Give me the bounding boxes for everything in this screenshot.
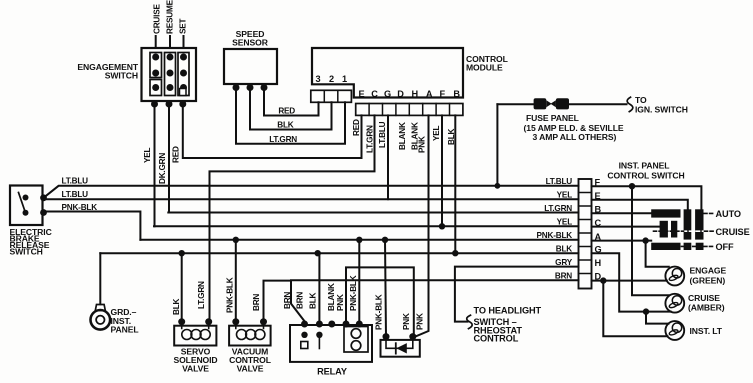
node on row F right xyxy=(629,183,635,189)
svg-text:RED: RED xyxy=(278,107,295,116)
svg-text:YEL: YEL xyxy=(557,218,573,227)
svg-text:BRN: BRN xyxy=(252,294,261,311)
wire LT.GRN: speed sensor pin1 to module connector 1 xyxy=(236,89,345,144)
svg-text:(AMBER): (AMBER) xyxy=(688,303,725,313)
svg-text:TO: TO xyxy=(635,95,647,105)
svg-text:D: D xyxy=(595,272,602,282)
wire row F right: connector to switch and lamp branch xyxy=(592,186,702,209)
svg-text:A: A xyxy=(595,232,602,242)
wire: row F branch down to cruise lamp xyxy=(632,186,669,295)
node: YEL joins row C xyxy=(439,223,445,229)
svg-text:IGN. SWITCH: IGN. SWITCH xyxy=(635,105,688,115)
indicator lamp: INST LT xyxy=(665,321,684,340)
wire BLK: speed sensor pin2 to module connector 2 xyxy=(250,89,332,130)
svg-text:G: G xyxy=(384,89,391,99)
svg-text:F: F xyxy=(439,89,445,99)
svg-text:F: F xyxy=(595,177,601,187)
node: BLK joins row G xyxy=(452,250,458,256)
svg-text:LT.BLU: LT.BLU xyxy=(62,190,89,199)
svg-text:PNK: PNK xyxy=(336,294,345,311)
svg-text:PNK-BLK: PNK-BLK xyxy=(349,275,358,311)
wire LT.GRN: module pin C to servo solenoid valve xyxy=(210,115,375,321)
svg-text:BLK: BLK xyxy=(556,245,573,254)
svg-text:G: G xyxy=(595,245,602,255)
svg-text:RED: RED xyxy=(352,119,361,136)
svg-text:2: 2 xyxy=(329,74,334,84)
svg-text:PNK-BLK: PNK-BLK xyxy=(62,203,98,212)
wire: G branch to inst lamp top xyxy=(646,312,669,324)
svg-text:LT.BLU: LT.BLU xyxy=(546,177,573,186)
vacuum control valve xyxy=(229,240,271,346)
svg-text:YEL: YEL xyxy=(557,191,573,200)
node: diode PNK-BLK tap on row A xyxy=(382,237,388,243)
wire row B to connector B xyxy=(168,212,578,214)
wire PNK: module pin A down to diode xyxy=(414,115,429,337)
svg-text:ENGAGE: ENGAGE xyxy=(690,266,727,276)
svg-text:LT.GRN: LT.GRN xyxy=(544,204,572,213)
svg-text:BLANK: BLANK xyxy=(327,283,336,311)
node on row G lamp branch xyxy=(643,308,649,314)
relay K1 xyxy=(290,321,372,362)
svg-text:BLK: BLK xyxy=(309,292,318,309)
node: relay PNK-BLK tap on row A xyxy=(356,237,362,243)
wire row D right: connector to engage lamp bottom xyxy=(592,280,667,282)
svg-text:BRN: BRN xyxy=(283,292,292,309)
connector break to headlight switch xyxy=(467,315,472,328)
svg-text:AUTO: AUTO xyxy=(716,209,741,219)
wire PNK-BLK row A to connector A xyxy=(140,239,578,241)
wire row B right: connector to auto bar xyxy=(592,212,652,214)
svg-text:BRN: BRN xyxy=(555,271,572,280)
wire row A right: connector to off bar with lamp branch xyxy=(592,240,652,242)
svg-text:CONTROL: CONTROL xyxy=(474,334,519,344)
svg-text:(GREEN): (GREEN) xyxy=(690,275,726,285)
svg-text:B: B xyxy=(453,89,460,99)
electric brake release switch xyxy=(10,186,47,226)
svg-text:RED: RED xyxy=(172,146,181,163)
svg-text:BRN: BRN xyxy=(296,292,305,309)
svg-text:E: E xyxy=(595,191,601,201)
wire: row D branch down to inst lamp bottom xyxy=(603,281,667,337)
svg-text:PNK-BLK: PNK-BLK xyxy=(375,294,384,330)
svg-text:MODULE: MODULE xyxy=(466,63,503,73)
control module U1 xyxy=(311,48,463,115)
svg-text:CRUISE: CRUISE xyxy=(688,293,720,303)
ground ring GRD-INST PANEL xyxy=(91,253,111,329)
diode CR1 xyxy=(381,333,420,357)
svg-text:A: A xyxy=(426,89,433,99)
node on row A right xyxy=(642,237,648,243)
svg-text:E: E xyxy=(358,89,364,99)
wire DK.GRN: engagement switch to row B xyxy=(168,104,170,213)
svg-text:SENSOR: SENSOR xyxy=(232,38,269,48)
svg-text:BLANK: BLANK xyxy=(398,122,407,150)
svg-text:PNK-BLK: PNK-BLK xyxy=(537,231,573,240)
svg-text:VALVE: VALVE xyxy=(182,364,209,374)
svg-text:BLK: BLK xyxy=(277,121,294,130)
svg-text:D: D xyxy=(397,89,404,99)
wire RED: speed sensor pin3 to module connector 3 xyxy=(264,89,319,116)
wire PNK-BLK: row A to relay pin 5 xyxy=(358,240,360,324)
svg-text:DK.GRN: DK.GRN xyxy=(158,153,167,184)
svg-text:PNK-BLK: PNK-BLK xyxy=(226,277,235,313)
svg-text:GRY: GRY xyxy=(555,258,573,267)
svg-text:C: C xyxy=(595,218,602,228)
wire GRY row H: headlight switch to connector H xyxy=(455,267,579,322)
svg-text:RESUME: RESUME xyxy=(166,0,175,34)
wire PNK-BLK: brake switch jog down to row A xyxy=(44,212,141,240)
svg-text:SWITCH: SWITCH xyxy=(10,247,43,257)
svg-text:PNK: PNK xyxy=(418,136,427,153)
wire row E right: connector to switch xyxy=(592,200,688,210)
wire LT.BLU row E: brake switch to connector E xyxy=(44,198,579,200)
wire PNK: relay pin 4 up over to diode xyxy=(346,267,414,336)
wire YEL: module pin F down to row C xyxy=(441,115,443,226)
inst panel connector xyxy=(579,179,592,289)
node on row D right xyxy=(600,277,606,283)
svg-text:CONTROL SWITCH: CONTROL SWITCH xyxy=(607,170,684,180)
mode switch bars AUTO/CRUISE/OFF xyxy=(651,209,703,250)
svg-text:SET: SET xyxy=(179,18,188,34)
svg-text:CRUISE: CRUISE xyxy=(716,227,750,237)
svg-text:TO HEADLIGHT: TO HEADLIGHT xyxy=(474,306,542,316)
node: relay BLK tap on row G xyxy=(315,250,321,256)
svg-text:VALVE: VALVE xyxy=(237,364,264,374)
servo solenoid valve xyxy=(174,253,216,345)
svg-text:B: B xyxy=(595,204,602,214)
wire row C right: connector to cruise contact xyxy=(592,226,660,228)
svg-text:INST. LT: INST. LT xyxy=(690,326,723,336)
svg-text:OFF: OFF xyxy=(716,242,735,252)
svg-text:3: 3 xyxy=(315,74,320,84)
node: servo BLK tap on row G xyxy=(179,250,185,256)
wire BRN: vacuum valve to relay pin 1 xyxy=(264,281,305,322)
wire row G right: down to cruise and inst lamps xyxy=(592,253,671,311)
svg-text:LT.GRN: LT.GRN xyxy=(269,135,297,144)
wire LT.BLU: module pin G down to row E xyxy=(387,115,389,199)
svg-text:H: H xyxy=(595,258,602,268)
svg-text:BLK: BLK xyxy=(447,128,456,145)
wire BLK row G: ground to connector G xyxy=(100,252,578,254)
svg-text:H: H xyxy=(412,89,419,99)
indicator lamp: CRUISE (AMBER) xyxy=(665,294,684,313)
svg-text:LT.BLU: LT.BLU xyxy=(378,121,387,148)
wire PNK-BLK: row A down to diode left terminal xyxy=(385,240,386,337)
indicator lamp: ENGAGE (GREEN) xyxy=(665,267,684,286)
wire BLK: row G to relay pin 2 xyxy=(318,253,320,324)
fuse panel F1 xyxy=(495,97,633,189)
wire BLK: module pin B down to row G xyxy=(454,115,456,253)
connector break to ign switch xyxy=(627,97,633,111)
svg-text:YEL: YEL xyxy=(432,125,441,141)
node: vacuum valve tap on row A xyxy=(233,237,239,243)
speed sensor xyxy=(224,49,277,91)
wire LT.BLU row F: brake switch to connector F xyxy=(44,186,579,198)
wire YEL: engagement switch to row C xyxy=(154,104,156,226)
svg-text:C: C xyxy=(371,89,378,99)
wire: row A branch down to engage lamp xyxy=(646,241,669,267)
svg-text:RELAY: RELAY xyxy=(317,367,347,377)
svg-text:PNK: PNK xyxy=(402,313,411,330)
wire BRN row D to connector D xyxy=(291,279,579,281)
engagement switch S1 xyxy=(142,36,197,108)
svg-text:LT.GRN: LT.GRN xyxy=(366,125,375,153)
svg-text:1: 1 xyxy=(342,74,347,84)
wire RED: engagement switch to module pin E xyxy=(183,104,362,158)
svg-text:PANEL: PANEL xyxy=(111,325,139,335)
svg-text:PNK: PNK xyxy=(416,313,425,330)
svg-text:INST. PANEL: INST. PANEL xyxy=(619,161,670,171)
wire row C to connector C xyxy=(154,225,579,227)
svg-text:3 AMP ALL OTHERS): 3 AMP ALL OTHERS) xyxy=(533,132,617,142)
svg-text:BLK: BLK xyxy=(172,298,181,315)
svg-text:CRUISE: CRUISE xyxy=(153,4,162,34)
svg-text:LT.GRN: LT.GRN xyxy=(197,281,206,309)
svg-text:SWITCH: SWITCH xyxy=(105,71,138,81)
svg-text:FUSE PANEL: FUSE PANEL xyxy=(526,113,579,123)
svg-text:LT.BLU: LT.BLU xyxy=(62,176,89,185)
svg-text:YEL: YEL xyxy=(143,147,152,163)
